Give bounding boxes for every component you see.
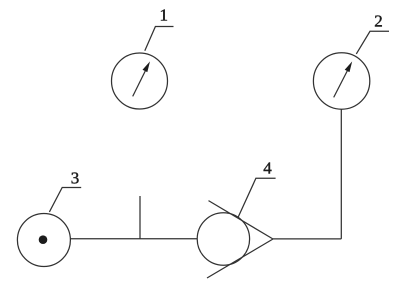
svg-text:1: 1 bbox=[160, 6, 169, 25]
svg-text:2: 2 bbox=[374, 12, 383, 31]
svg-text:3: 3 bbox=[71, 169, 80, 188]
svg-text:4: 4 bbox=[263, 159, 272, 178]
